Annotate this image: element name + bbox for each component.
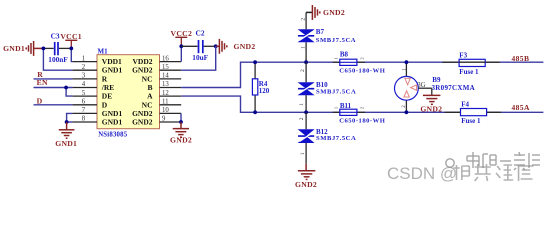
svg-text:CSDN @: CSDN @ xyxy=(387,164,457,183)
ic M1 NSi83085 transceiver xyxy=(97,48,160,139)
watermark xyxy=(387,152,540,183)
svg-text:1: 1 xyxy=(82,55,85,62)
junction (EN) xyxy=(64,86,68,90)
svg-text:GND2: GND2 xyxy=(132,118,153,127)
pin 15 (GND2) xyxy=(132,64,181,75)
wire D to pin 6 xyxy=(34,104,73,106)
gas discharge tube B9 3R097CXMA xyxy=(395,62,476,112)
wire EN to pin 4 xyxy=(34,87,73,89)
junction (R4 bottom) xyxy=(253,110,257,114)
net label 485B xyxy=(512,54,530,63)
svg-text:2: 2 xyxy=(301,18,307,21)
svg-text:DE: DE xyxy=(102,92,112,101)
svg-text:2: 2 xyxy=(360,107,365,109)
ground GND2 (below IC) xyxy=(173,122,189,137)
svg-text:14: 14 xyxy=(162,73,169,80)
svg-text:GND1: GND1 xyxy=(55,139,77,148)
svg-text:120: 120 xyxy=(259,87,270,95)
net label GND2 (top of column) xyxy=(323,8,345,17)
svg-text:3: 3 xyxy=(82,73,86,80)
svg-text:10uF: 10uF xyxy=(192,53,208,62)
svg-text:EN: EN xyxy=(37,78,48,87)
svg-text:SMBJ7.5CA: SMBJ7.5CA xyxy=(316,135,356,142)
pin 1 (VDD1) xyxy=(73,55,122,66)
power VCC1 xyxy=(60,32,82,48)
pin 11 (NC) xyxy=(142,99,182,110)
svg-text:B8: B8 xyxy=(340,51,349,59)
svg-text:100nF: 100nF xyxy=(48,55,68,64)
svg-text:GND2: GND2 xyxy=(170,136,192,145)
svg-text:C650-180-WH: C650-180-WH xyxy=(339,117,386,124)
ground GND2 (bottom of TVS column) xyxy=(298,164,315,180)
ground GND2 (top of TVS column, rotated right) xyxy=(306,5,320,20)
svg-text:A: A xyxy=(147,92,153,101)
pin 6 (D) xyxy=(73,99,108,110)
pin 10 (GND2) xyxy=(132,107,181,118)
svg-text:7: 7 xyxy=(82,107,86,114)
svg-text:GND2: GND2 xyxy=(295,180,317,189)
pin 3 (R) xyxy=(73,73,108,84)
svg-text:NSi83085: NSi83085 xyxy=(98,132,128,139)
svg-text:VCC1: VCC1 xyxy=(60,32,82,41)
svg-text:10: 10 xyxy=(162,107,169,114)
pin 5 (DE) xyxy=(73,90,113,101)
svg-text:2: 2 xyxy=(300,69,306,72)
svg-text:3R097CXMA: 3R097CXMA xyxy=(432,84,476,92)
pin 12 (A) xyxy=(147,90,181,101)
svg-text:GND1: GND1 xyxy=(102,66,123,75)
svg-text:1: 1 xyxy=(299,103,305,106)
net label GND2 (bottom of column) xyxy=(295,180,317,189)
svg-text:SMBJ7.5CA: SMBJ7.5CA xyxy=(316,88,356,95)
svg-text:16: 16 xyxy=(162,55,169,62)
inductor B8 C650-180-WH xyxy=(333,51,386,75)
svg-text:GND2: GND2 xyxy=(420,105,442,114)
inductor B11 C650-180-WH xyxy=(333,102,386,124)
ground GND1 (bottom left) xyxy=(59,122,75,138)
wire pin 15 to GND2 xyxy=(181,46,216,70)
svg-text:2: 2 xyxy=(82,64,86,71)
junction (GDT top) xyxy=(405,60,409,64)
wire pin 10 to pin 9 node xyxy=(180,113,182,122)
svg-text:1: 1 xyxy=(301,46,307,49)
svg-text:B9: B9 xyxy=(432,76,441,84)
wire pin 7 to ground xyxy=(67,113,73,122)
net label EN xyxy=(37,78,48,87)
pin 8 (GND1) xyxy=(73,116,123,127)
junction (C3 right / VCC1) xyxy=(69,47,73,51)
svg-text:Fuse 1: Fuse 1 xyxy=(459,68,479,76)
junction (R4 top) xyxy=(253,60,257,64)
svg-text:B11: B11 xyxy=(340,102,352,110)
pin 14 (NC) xyxy=(142,73,182,84)
pin 4 (/RE) xyxy=(73,81,115,92)
svg-text:2: 2 xyxy=(299,117,305,120)
junction (TVS column upper bus) xyxy=(304,60,308,64)
svg-text:C2: C2 xyxy=(196,28,205,37)
resistor R4 xyxy=(252,62,269,112)
net label GND1 (top left) xyxy=(3,44,25,53)
svg-text:C650-180-WH: C650-180-WH xyxy=(339,68,386,75)
net label GND2 (right of GDT) xyxy=(420,105,442,114)
pin 2 (GND1) xyxy=(73,64,123,75)
TVS diode B10 SMBJ7.5CA xyxy=(298,62,357,112)
net label GND1 (bottom) xyxy=(55,139,77,148)
fuse F3 Fuse 1 xyxy=(442,51,500,76)
svg-text:1: 1 xyxy=(334,107,339,109)
wire B net (pin 13 to upper bus) xyxy=(181,62,543,87)
capacitor C3 xyxy=(43,31,71,64)
net label GND2 (top) xyxy=(234,42,256,51)
svg-text:F3: F3 xyxy=(459,51,467,59)
svg-text:SMBJ7.5CA: SMBJ7.5CA xyxy=(316,37,356,44)
wire pin 16 to VCC2 xyxy=(180,46,182,61)
wire pin 8 to ground xyxy=(67,121,73,123)
ground GND1 (top left, rotated left) xyxy=(26,41,43,56)
wire A net (pin 12 to lower bus) xyxy=(181,96,543,112)
pin 16 (VDD2) xyxy=(133,55,182,66)
svg-text:VCC2: VCC2 xyxy=(171,29,193,38)
TVS diode B12 SMBJ7.5CA xyxy=(298,112,357,163)
pin 9 (GND2) xyxy=(132,116,181,127)
svg-text:GND1: GND1 xyxy=(102,118,123,127)
ground GND2 (top, rotated right) xyxy=(216,39,227,54)
power VCC2 xyxy=(171,29,193,46)
svg-text:GND1: GND1 xyxy=(3,44,25,53)
pin 7 (GND1) xyxy=(73,107,123,118)
junction (C3 left) xyxy=(42,47,46,51)
svg-text:6: 6 xyxy=(82,99,86,106)
svg-text:13: 13 xyxy=(162,81,169,88)
svg-text:C3: C3 xyxy=(51,31,60,40)
svg-text:8: 8 xyxy=(82,116,86,123)
svg-text:4: 4 xyxy=(82,81,86,88)
net label R xyxy=(37,70,43,79)
svg-text:Fuse 1: Fuse 1 xyxy=(461,117,481,125)
net label D xyxy=(37,97,43,106)
svg-text:485B: 485B xyxy=(512,54,530,63)
svg-text:1: 1 xyxy=(300,152,306,155)
TVS diode B7 SMBJ7.5CA xyxy=(298,12,357,62)
svg-text:M1: M1 xyxy=(98,48,109,56)
junction (C2 right) xyxy=(214,44,218,48)
junction (pin 9 GND2) xyxy=(179,120,183,124)
pin 13 (B) xyxy=(147,81,181,92)
junction (VCC2) xyxy=(179,44,183,48)
svg-text:GND2: GND2 xyxy=(234,42,256,51)
ground GND2 (right of GDT) xyxy=(418,88,440,104)
wire VCC1 to pin 1 xyxy=(71,48,72,61)
wire EN branch to pin 5 xyxy=(66,88,73,97)
svg-text:B7: B7 xyxy=(316,28,325,36)
svg-text:F4: F4 xyxy=(461,101,469,109)
junction (GND1 bottom) xyxy=(65,120,69,124)
svg-text:12: 12 xyxy=(162,90,169,97)
svg-text:GND2: GND2 xyxy=(323,8,345,17)
junction (TVS column lower bus) xyxy=(304,110,308,114)
svg-text:2: 2 xyxy=(360,57,365,59)
svg-text:9: 9 xyxy=(162,116,166,123)
svg-text:15: 15 xyxy=(162,64,169,71)
wire R to pin 3 xyxy=(34,78,73,80)
junction (GDT bottom) xyxy=(405,110,409,114)
svg-text:485A: 485A xyxy=(512,103,530,112)
wire GND1 to pin 2 xyxy=(43,48,72,70)
svg-text:11: 11 xyxy=(162,99,169,106)
svg-text:GND2: GND2 xyxy=(132,66,153,75)
svg-text:1: 1 xyxy=(334,57,339,59)
fuse F4 Fuse 1 xyxy=(444,101,501,126)
net label 485A xyxy=(512,103,530,112)
svg-text:5: 5 xyxy=(82,90,86,97)
net label GND2 (below IC) xyxy=(170,136,192,145)
capacitor C2 xyxy=(181,28,215,62)
